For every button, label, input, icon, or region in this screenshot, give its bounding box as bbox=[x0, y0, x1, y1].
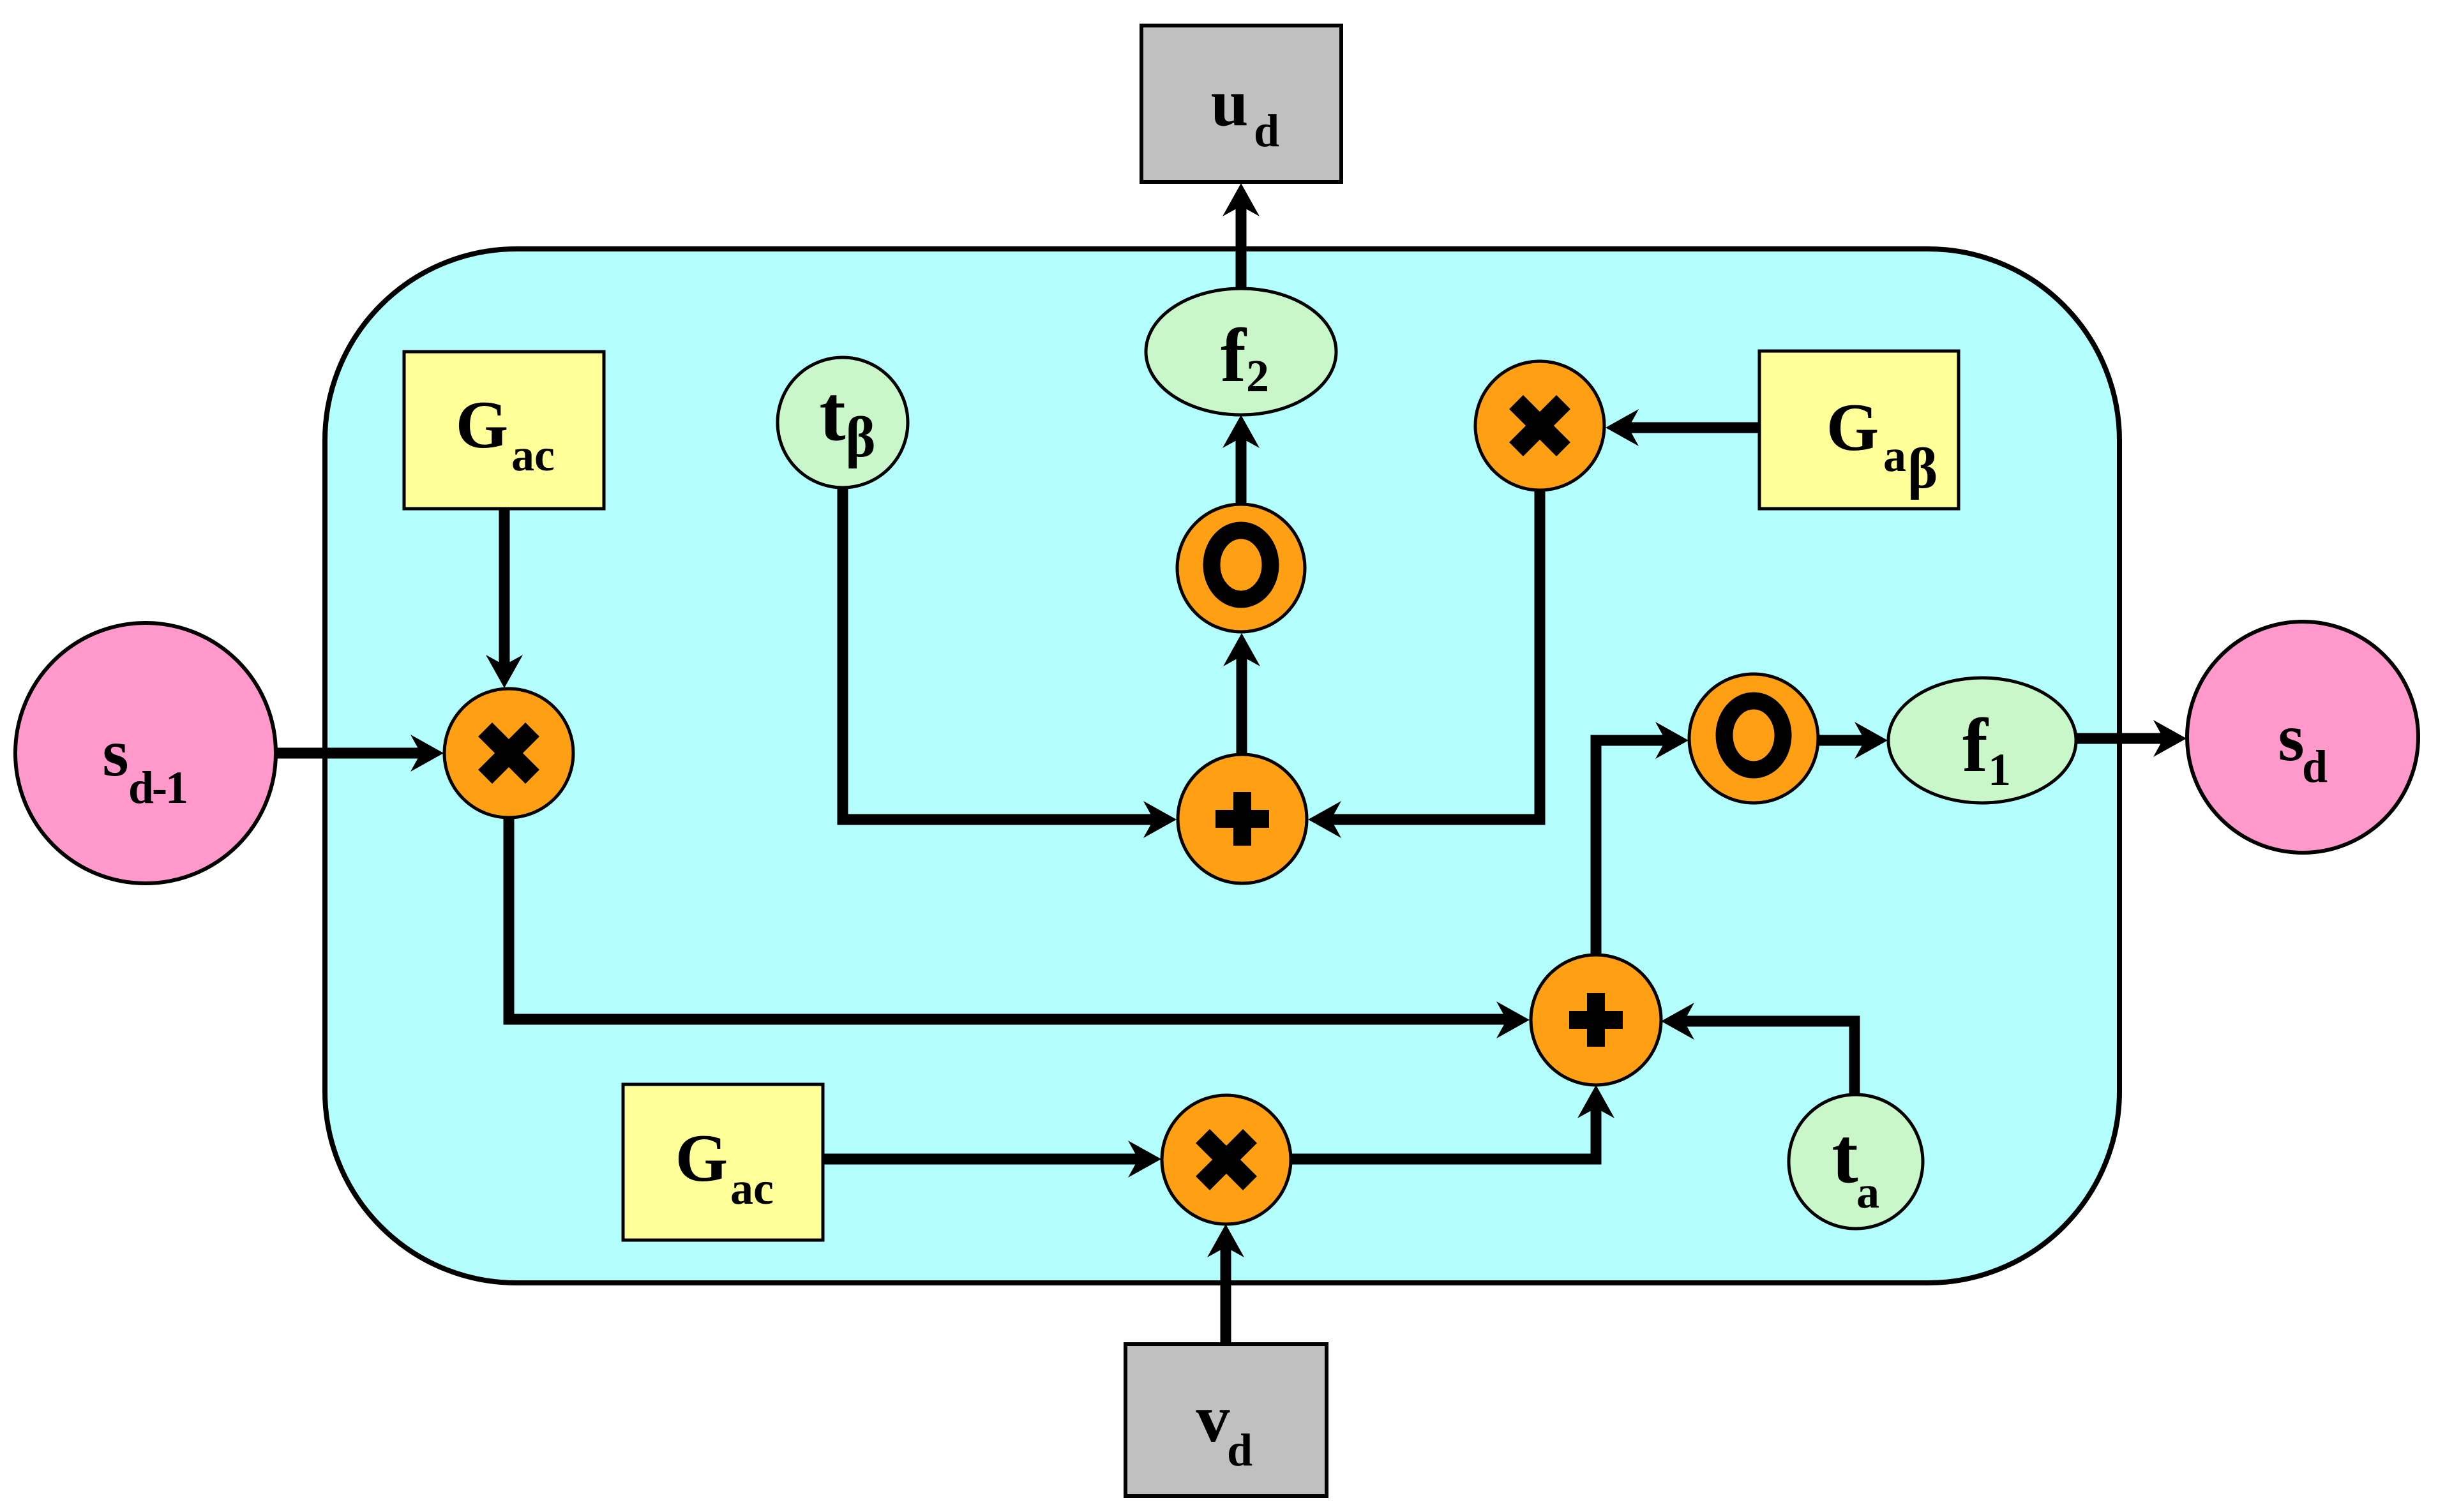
wire: v_d up to X3 bbox=[1221, 1246, 1231, 1345]
arrowhead into f2 bottom bbox=[1223, 415, 1260, 448]
arrowhead into O1 bottom bbox=[1223, 633, 1260, 666]
wire: X1 down and right to adder P2 bbox=[509, 814, 1508, 1019]
svg-text:s: s bbox=[102, 715, 128, 790]
svg-text:f: f bbox=[1962, 703, 1989, 788]
node G_a_beta (yellow weight box) bbox=[1759, 351, 1959, 509]
arrowhead into X3 bottom bbox=[1207, 1224, 1244, 1257]
svg-text:u: u bbox=[1211, 65, 1249, 140]
wire: s_d-1 to multiplier X1 bbox=[275, 748, 422, 759]
node s_d-1 (pink state circle) bbox=[15, 623, 276, 883]
svg-text:d: d bbox=[2302, 741, 2328, 792]
svg-text:2: 2 bbox=[1246, 350, 1269, 401]
arrowhead into O2 left bbox=[1655, 722, 1689, 759]
node X1 multiplier (orange circle with x) bbox=[444, 689, 573, 818]
arrowhead into X3 left bbox=[1128, 1141, 1161, 1178]
node G_ac bottom (yellow weight box) bbox=[623, 1084, 823, 1240]
wire: f1 to s_d bbox=[2075, 733, 2165, 744]
wire: O1 up to f2 bbox=[1236, 437, 1247, 507]
svg-text:ac: ac bbox=[730, 1163, 774, 1214]
svg-text:f: f bbox=[1221, 313, 1247, 398]
wire: f2 up to u_d bbox=[1236, 205, 1247, 292]
svg-text:G: G bbox=[1826, 390, 1879, 465]
node f2 (green activation ellipse) bbox=[1146, 288, 1336, 415]
node X3 multiplier (orange circle with x) bbox=[1162, 1095, 1291, 1224]
arrowhead into u_d bottom bbox=[1223, 183, 1260, 216]
svg-text:1: 1 bbox=[1988, 744, 2011, 795]
arrowhead into P2 right bbox=[1661, 1003, 1694, 1040]
arrowhead into X1 top bbox=[486, 655, 523, 688]
cell body (rounded rectangle) bbox=[325, 249, 2119, 1283]
svg-text:t: t bbox=[1832, 1112, 1858, 1199]
wire: G_a_beta left to X2 bbox=[1627, 423, 1758, 433]
wire: O2 to f1 bbox=[1817, 735, 1866, 746]
wire: G_ac bottom right to X3 bbox=[822, 1154, 1140, 1165]
svg-text:G: G bbox=[456, 387, 508, 462]
node O1 sigmoid (orange circle with O) bbox=[1177, 504, 1305, 632]
svg-text:a: a bbox=[1883, 430, 1906, 481]
arrowhead into X1 bbox=[410, 735, 444, 772]
arrowhead into P2 left bbox=[1496, 1001, 1530, 1038]
svg-text:d: d bbox=[1254, 105, 1279, 156]
node t_a (green bias circle) bbox=[1789, 1095, 1923, 1229]
arrowhead into s_d bbox=[2153, 720, 2186, 757]
node v_d (gray box) bbox=[1125, 1344, 1327, 1496]
svg-text:G: G bbox=[675, 1121, 728, 1195]
node f1 (green activation ellipse) bbox=[1888, 678, 2076, 803]
node u_d (gray box) bbox=[1141, 26, 1341, 182]
svg-text:β: β bbox=[845, 406, 875, 469]
node P1 adder (orange circle with plus) bbox=[1178, 754, 1307, 883]
wire: X3 right and up to adder P2 bottom bbox=[1291, 1107, 1596, 1159]
wire: G_ac top down to X1 bbox=[499, 507, 510, 666]
svg-text:s: s bbox=[2278, 700, 2304, 775]
node t_beta (green bias circle) bbox=[778, 357, 908, 488]
arrowhead into f1 left bbox=[1855, 722, 1888, 759]
svg-text:β: β bbox=[1908, 437, 1938, 500]
wire: P2 up and right to O2 bbox=[1596, 740, 1667, 957]
node s_d (pink state circle) bbox=[2187, 622, 2418, 853]
svg-text:ac: ac bbox=[511, 430, 555, 481]
svg-text:t: t bbox=[819, 370, 845, 457]
arrowhead into P2 bottom bbox=[1577, 1085, 1614, 1118]
node O2 sigmoid (orange circle with O) bbox=[1689, 674, 1818, 803]
wire: X2 down and left to adder P1 bbox=[1330, 488, 1540, 820]
svg-text:a: a bbox=[1856, 1167, 1879, 1218]
svg-text:d: d bbox=[1227, 1425, 1253, 1476]
svg-text:v: v bbox=[1196, 1381, 1230, 1456]
svg-text:d-1: d-1 bbox=[128, 762, 186, 813]
arrowhead into P1 left bbox=[1143, 801, 1177, 838]
wire: P1 up to O1 bbox=[1237, 655, 1247, 757]
node G_ac top (yellow weight box) bbox=[404, 352, 604, 509]
arrowhead into X2 right bbox=[1606, 409, 1639, 446]
wire: t_beta down and right to adder P1 bbox=[843, 485, 1155, 820]
wire: t_a up and left to adder P2 right bbox=[1684, 1021, 1855, 1094]
node X2 multiplier (orange circle with x) bbox=[1475, 361, 1604, 490]
node P2 adder (orange circle with plus) bbox=[1531, 955, 1661, 1085]
arrowhead into P1 right bbox=[1308, 801, 1341, 838]
